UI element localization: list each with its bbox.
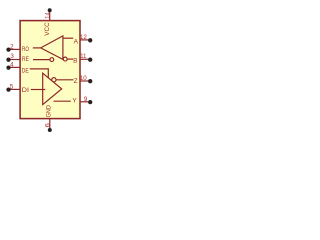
- IC body U1: [20, 21, 80, 119]
- svg-text:Z: Z: [74, 78, 78, 85]
- wire RO to receiver apex: [33, 47, 41, 49]
- pin 9 Y: [80, 101, 90, 103]
- wire Z output: [56, 79, 73, 81]
- svg-text:DE: DE: [22, 68, 30, 75]
- bubble on Z output: [52, 78, 56, 82]
- pin 11 B: [80, 58, 90, 60]
- svg-text:A: A: [74, 39, 79, 46]
- wire A to receiver input: [63, 37, 73, 39]
- svg-text:RE: RE: [22, 56, 30, 63]
- wire Y output: [54, 100, 71, 102]
- bubble on B input: [63, 57, 67, 61]
- svg-text:2: 2: [10, 44, 14, 51]
- pin 5 DI: [10, 88, 21, 90]
- svg-text:11: 11: [80, 53, 87, 60]
- svg-text:9: 9: [84, 96, 88, 103]
- svg-text:RO: RO: [22, 46, 29, 53]
- pin 2 RO: [10, 48, 21, 50]
- bubble on RE enable: [50, 58, 54, 62]
- svg-text:DI: DI: [22, 87, 29, 94]
- pin 3 RE: [10, 59, 21, 61]
- svg-text:Y: Y: [72, 97, 77, 104]
- driver triangle (DI amplifier): [43, 73, 62, 104]
- svg-text:10: 10: [80, 75, 87, 82]
- svg-text:14: 14: [44, 12, 51, 19]
- svg-text:3: 3: [10, 53, 14, 60]
- wire DI input: [31, 89, 46, 91]
- svg-text:GND: GND: [46, 105, 53, 117]
- pin 4 DE: [10, 66, 21, 68]
- svg-text:12: 12: [80, 34, 87, 41]
- svg-text:VCC: VCC: [44, 22, 51, 36]
- wire RE: [33, 59, 50, 61]
- pin 12 A: [80, 39, 90, 41]
- svg-text:6: 6: [44, 123, 51, 128]
- pin 10 Z: [80, 80, 90, 82]
- wire B input: [67, 58, 73, 60]
- wire DE horizontal: [30, 69, 49, 78]
- svg-text:4: 4: [10, 61, 14, 68]
- pin 6 GND: [49, 119, 51, 130]
- pin 14 VCC: [49, 10, 51, 20]
- svg-text:B: B: [73, 57, 77, 64]
- receiver triangle (RO amplifier): [41, 36, 63, 60]
- svg-text:5: 5: [10, 84, 14, 91]
